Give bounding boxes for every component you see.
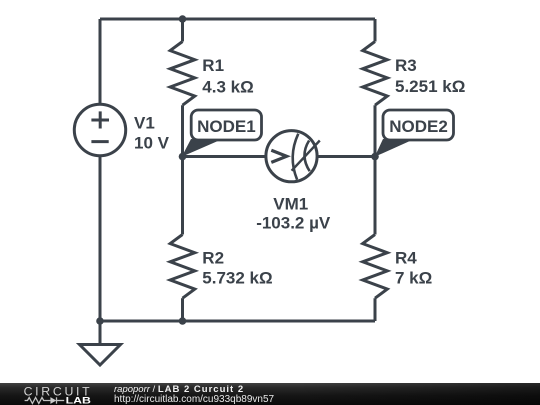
svg-text:LAB: LAB [66, 396, 92, 405]
svg-text:R1: R1 [202, 56, 224, 75]
svg-text:10 V: 10 V [134, 133, 170, 152]
svg-text:R2: R2 [202, 249, 224, 268]
svg-text:R3: R3 [395, 56, 417, 75]
svg-text:V1: V1 [134, 113, 155, 132]
svg-text:5.732 kΩ: 5.732 kΩ [202, 268, 272, 287]
svg-text:-103.2 µV: -103.2 µV [256, 213, 331, 232]
svg-text:VM1: VM1 [273, 195, 308, 214]
svg-text:NODE1: NODE1 [197, 117, 256, 136]
svg-text:5.251 kΩ: 5.251 kΩ [395, 77, 465, 96]
svg-text:NODE2: NODE2 [389, 117, 448, 136]
svg-text:7 kΩ: 7 kΩ [395, 268, 432, 287]
svg-text:R4: R4 [395, 249, 417, 268]
svg-text:4.3 kΩ: 4.3 kΩ [202, 77, 253, 96]
